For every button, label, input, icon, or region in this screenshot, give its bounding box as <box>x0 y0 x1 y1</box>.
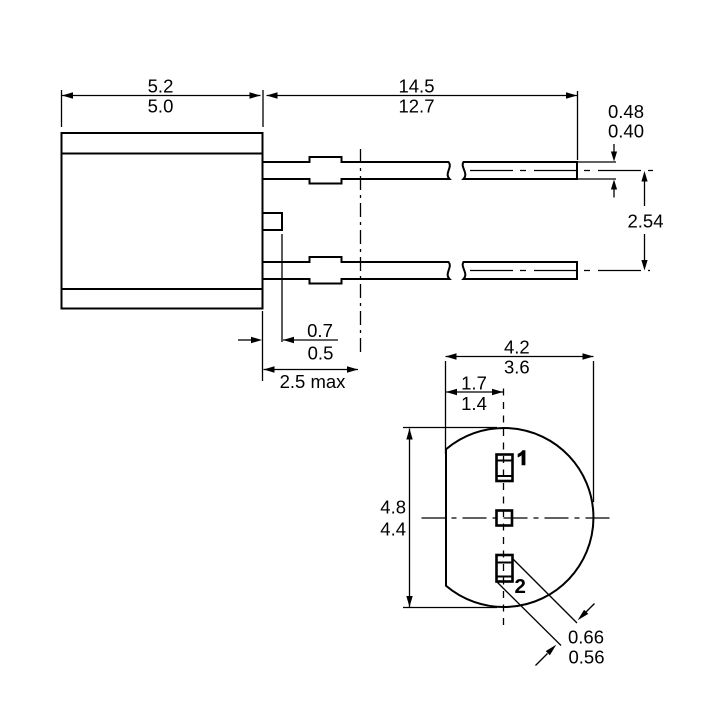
package body (side view) <box>62 133 263 309</box>
svg-text:2.5 max: 2.5 max <box>280 371 347 392</box>
svg-text:5.0: 5.0 <box>148 96 174 117</box>
svg-text:4.8: 4.8 <box>380 496 406 517</box>
svg-text:0.40: 0.40 <box>608 120 644 141</box>
dim line 4.8/4.4 <box>409 429 411 608</box>
extension line below body right edge <box>262 311 264 381</box>
svg-text:14.5: 14.5 <box>398 75 434 96</box>
shared extension line at body edge <box>262 90 264 127</box>
dim line 14.5/12.7 <box>267 95 578 97</box>
dim line 1.7/1.4 <box>446 391 503 393</box>
center pad <box>497 511 513 526</box>
dim line 5.2/5.0 <box>62 95 261 97</box>
dim 0.48/0.40 upper arrow <box>613 144 615 153</box>
svg-text:1.4: 1.4 <box>461 393 487 414</box>
svg-text:0.48: 0.48 <box>608 101 644 122</box>
dim 2.54 upper part <box>644 180 646 206</box>
pad 1 <box>497 455 513 482</box>
lead 2 far segment <box>463 262 577 279</box>
horizontal dash-dot centerline (bottom view) <box>422 517 611 519</box>
vertical dashed centerline (bottom view) <box>503 389 505 627</box>
dim 2.5 max line <box>264 369 359 371</box>
dim 4.8/4.4 bottom extension line <box>403 607 497 609</box>
vertical centerline at lead shoulder <box>360 149 362 352</box>
dim 0.7/0.5 line with left-pointing arrow <box>283 339 338 341</box>
svg-text:3.6: 3.6 <box>504 357 530 378</box>
pad 2 <box>497 555 513 582</box>
lead 2 centerline <box>470 270 650 272</box>
leader line upper (pad 2 top-right corner) <box>513 559 577 623</box>
dim 0.48/0.40 lower arrow <box>613 189 615 198</box>
svg-text:0.5: 0.5 <box>308 343 334 364</box>
svg-text:0.56: 0.56 <box>569 646 605 667</box>
dim 4.8/4.4 top extension line <box>403 427 497 429</box>
svg-text:1.7: 1.7 <box>461 373 487 394</box>
dim 4.2/3.6 extension line right <box>593 361 595 502</box>
dim 5.2/5.0 extension line left <box>61 90 63 127</box>
svg-text:4.4: 4.4 <box>380 518 406 539</box>
svg-text:0.66: 0.66 <box>568 626 604 647</box>
dim 14.5/12.7 extension line right <box>577 91 579 160</box>
svg-text:4.2: 4.2 <box>504 336 530 357</box>
package outline (bottom view) <box>446 428 593 607</box>
lead 1 near segment <box>263 157 450 184</box>
lead end edge extension lines <box>578 161 616 163</box>
dim 2.54 lower part <box>644 234 646 261</box>
svg-text:12.7: 12.7 <box>398 96 434 117</box>
extension line below boss <box>281 234 283 342</box>
pin 1 label <box>518 450 526 465</box>
dim 0.7/0.5 left arrow pointing right <box>238 339 251 341</box>
arrow toward lower leader <box>536 654 548 666</box>
dim line 4.2/3.6 <box>446 356 594 358</box>
lead 2 near segment <box>263 257 450 284</box>
arrow toward upper leader <box>586 604 595 613</box>
svg-text:2: 2 <box>515 575 526 598</box>
dim 4.2/3.6 extension line left <box>445 361 447 454</box>
lead 1 centerline <box>470 170 653 172</box>
mounting boss on body <box>263 213 283 230</box>
lead 1 far segment <box>463 162 577 179</box>
leader line lower (pad 2 bottom-left corner) <box>497 582 561 646</box>
svg-text:2.54: 2.54 <box>627 210 663 231</box>
svg-text:0.7: 0.7 <box>307 320 333 341</box>
svg-text:5.2: 5.2 <box>148 75 174 96</box>
